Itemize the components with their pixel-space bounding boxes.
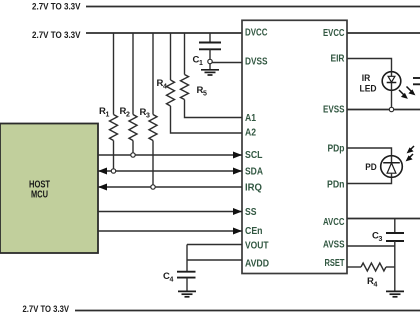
svg-text:VOUT: VOUT	[245, 241, 269, 252]
IC U1 box	[242, 20, 347, 273]
host MCU box	[0, 124, 98, 254]
pin A1	[245, 113, 256, 124]
svg-text:PDn: PDn	[327, 180, 345, 191]
wire rail 2 (to DVCC)	[86, 32, 242, 34]
wire EVSS	[347, 109, 420, 111]
svg-text:MCU: MCU	[31, 190, 48, 201]
svg-text:1: 1	[199, 60, 203, 67]
pin AVCC	[323, 217, 345, 228]
ground (C1/DVSS)	[201, 64, 219, 75]
capacitor C2 (cut off at edge)	[413, 78, 420, 84]
pin CEn	[245, 226, 263, 237]
capacitor C3	[372, 219, 404, 292]
svg-text:3: 3	[379, 236, 383, 243]
junction LED-EVSS	[389, 107, 393, 111]
svg-text:1: 1	[106, 112, 110, 119]
wire SCL	[98, 152, 242, 159]
photodiode PD	[365, 156, 402, 178]
pin SDA	[245, 167, 263, 178]
pin EIR	[331, 54, 346, 65]
capacitor C1	[193, 33, 222, 67]
svg-text:SDA: SDA	[245, 167, 263, 178]
wire LED to EVSS	[391, 90, 393, 109]
svg-text:DVCC: DVCC	[245, 28, 268, 39]
wire AVCC	[347, 218, 420, 220]
pin PDp	[328, 144, 345, 155]
PD incoming light arrows	[406, 146, 414, 161]
wire PDp	[347, 148, 392, 156]
wire CEn	[98, 228, 242, 235]
wire SS	[98, 208, 242, 215]
pin IRQ	[245, 183, 262, 194]
pin SS	[245, 207, 257, 218]
wire SDA	[98, 168, 242, 175]
svg-text:2.7V TO 3.3V: 2.7V TO 3.3V	[32, 2, 81, 13]
svg-text:DVSS: DVSS	[245, 57, 268, 68]
capacitor C4	[163, 271, 196, 291]
svg-text:IR: IR	[362, 73, 371, 83]
rail 1 label 2.7V TO 3.3V	[32, 2, 81, 13]
svg-text:A1: A1	[245, 113, 256, 124]
resistor R4 (top)	[157, 33, 175, 106]
pin VOUT	[245, 241, 269, 252]
pin AVSS	[323, 240, 345, 251]
rail 2 label 2.7V TO 3.3V	[32, 30, 81, 41]
wire AVSS	[347, 245, 395, 247]
ground (C3/RSET)	[386, 291, 404, 296]
svg-text:PDp: PDp	[328, 144, 345, 155]
svg-text:CEn: CEn	[245, 226, 263, 237]
resistor R3	[140, 33, 158, 187]
pin RSET	[325, 258, 345, 269]
resistor R2	[120, 33, 138, 155]
svg-text:2.7V TO 3.3V: 2.7V TO 3.3V	[23, 304, 70, 315]
junction R3-IRQ	[151, 185, 155, 189]
pin EVCC	[323, 28, 345, 39]
junction R2-SCL	[131, 153, 135, 157]
junction R1-SDA	[111, 169, 115, 173]
svg-text:PD: PD	[365, 162, 377, 172]
rail 3 label 2.7V TO 3.3V (bottom)	[23, 304, 70, 315]
svg-text:3: 3	[146, 113, 150, 120]
pin DVSS	[245, 57, 268, 68]
wire rail 1	[86, 6, 420, 8]
svg-text:4: 4	[374, 282, 378, 289]
svg-text:SS: SS	[245, 207, 257, 218]
svg-text:AVSS: AVSS	[323, 240, 345, 251]
svg-text:SCL: SCL	[245, 150, 263, 161]
wire rail 3 (bottom)	[75, 310, 420, 312]
wire PDn	[347, 177, 392, 183]
pin DVCC	[245, 28, 268, 39]
wire VOUT to C4	[186, 245, 188, 272]
pin SCL	[245, 150, 263, 161]
svg-text:IRQ: IRQ	[245, 183, 262, 194]
svg-text:2.7V TO 3.3V: 2.7V TO 3.3V	[32, 30, 81, 41]
wire EVCC	[347, 32, 420, 34]
wire AVDD	[187, 259, 242, 261]
svg-text:A2: A2	[245, 128, 256, 139]
pin AVDD	[245, 259, 269, 270]
wire IRQ	[98, 184, 242, 191]
resistor R1	[99, 33, 118, 171]
svg-text:LED: LED	[360, 84, 377, 94]
resistor R5	[181, 33, 208, 100]
svg-text:5: 5	[203, 91, 207, 98]
svg-text:2: 2	[126, 112, 130, 119]
wire DVSS	[212, 62, 243, 64]
svg-text:EIR: EIR	[331, 54, 346, 65]
wire A1	[185, 100, 243, 118]
svg-text:AVDD: AVDD	[245, 259, 269, 270]
svg-text:4: 4	[170, 277, 174, 284]
junction C1-DVSS	[208, 59, 212, 63]
svg-text:EVCC: EVCC	[323, 28, 345, 39]
pin A2	[245, 128, 256, 139]
ground (C4)	[178, 291, 196, 296]
wire EIR	[347, 59, 392, 72]
svg-text:4: 4	[163, 84, 167, 91]
svg-text:RSET: RSET	[325, 258, 345, 269]
resistor R4 (RSET)	[347, 263, 395, 289]
pin PDn	[327, 180, 345, 191]
wire A2	[171, 106, 243, 133]
IR LED D1	[360, 72, 401, 94]
wire VOUT	[187, 244, 242, 246]
pin EVSS	[323, 105, 345, 116]
LED emission arrows	[399, 87, 415, 99]
svg-text:AVCC: AVCC	[323, 217, 345, 228]
svg-text:EVSS: EVSS	[323, 105, 345, 116]
